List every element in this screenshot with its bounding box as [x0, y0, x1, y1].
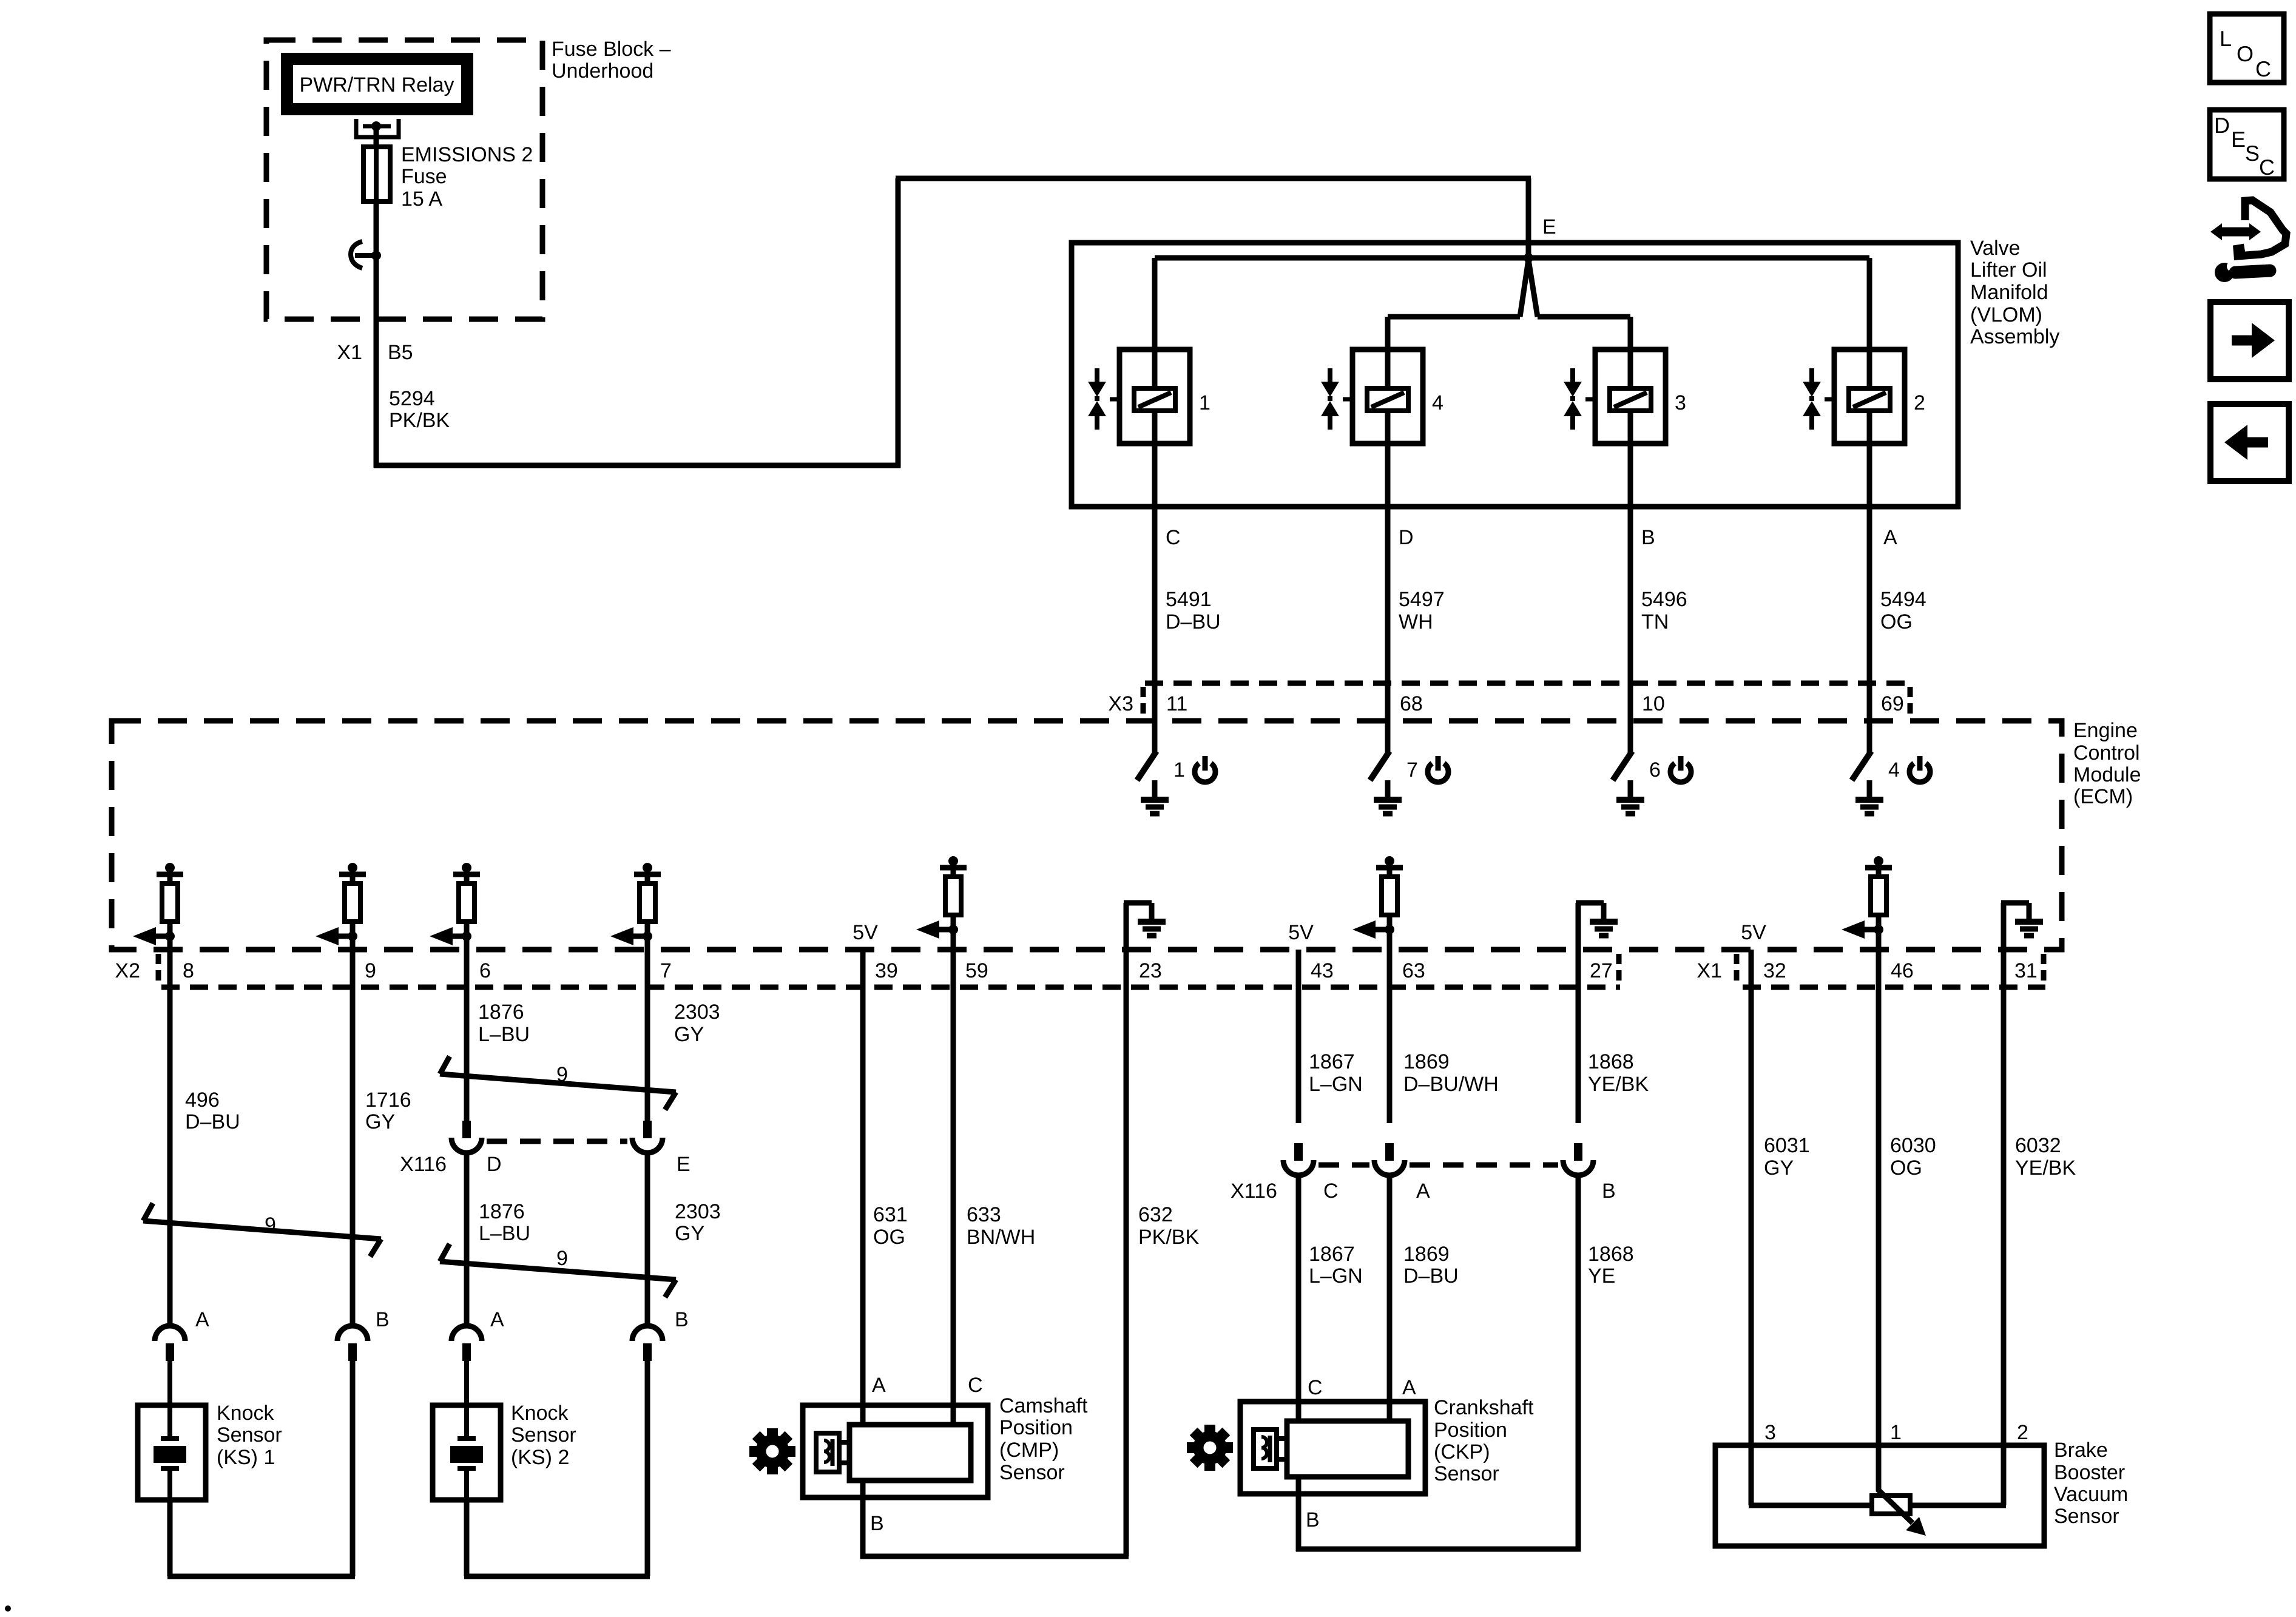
wire 2303 GY pin 7 to X116 E: [645, 950, 650, 1123]
wire V fan to solenoid bus 4-3: [1520, 260, 1538, 317]
junction dot E bus: [1524, 253, 1533, 263]
wire fuse to switch node: [374, 201, 379, 251]
svg-text:D–BU: D–BU: [1166, 610, 1221, 633]
wire KS2 return: [464, 1574, 650, 1579]
svg-text:GY: GY: [674, 1023, 704, 1046]
fuse block underhood dashed box: [266, 40, 542, 319]
label Knock Sensor (KS) 2: [511, 1402, 576, 1469]
svg-text:B5: B5: [388, 341, 413, 364]
icon DESC box: [2210, 110, 2284, 180]
svg-text:Camshaft: Camshaft: [999, 1394, 1088, 1417]
svg-text:1: 1: [1890, 1421, 1902, 1444]
X2 tick right: [1616, 954, 1622, 986]
ECM low side driver 4: [1852, 718, 1871, 800]
wire to pin: [350, 936, 356, 953]
wire label 5496 TN: [1641, 588, 1687, 633]
X3 tick left: [1141, 687, 1146, 719]
svg-text:Fuse: Fuse: [401, 165, 447, 188]
wire label 5494 OG: [1880, 588, 1926, 633]
CKP pickup element: [1254, 1430, 1289, 1468]
svg-text:59: 59: [965, 959, 988, 982]
svg-text:B: B: [675, 1308, 689, 1331]
svg-text:11: 11: [1166, 692, 1187, 715]
wire to pin: [167, 936, 173, 953]
wire down inside fuse block: [374, 255, 379, 319]
wire 632 PK/BK pin 23 down: [1124, 950, 1129, 1556]
svg-text:(KS) 2: (KS) 2: [511, 1446, 569, 1469]
svg-text:1867: 1867: [1309, 1243, 1355, 1266]
icon diagnostic connector and wrench: [2210, 200, 2286, 282]
label Engine Control Module (ECM): [2073, 719, 2141, 808]
wire label 6032 YE/BK: [2015, 1134, 2076, 1180]
svg-text:31: 31: [2014, 959, 2038, 982]
svg-text:1869: 1869: [1403, 1050, 1450, 1073]
wire to pin: [951, 930, 956, 953]
svg-text:L–GN: L–GN: [1309, 1073, 1363, 1096]
solenoid 2: [1803, 349, 1905, 444]
X3 tick right: [1908, 687, 1913, 719]
svg-text:Knock: Knock: [217, 1402, 274, 1425]
svg-text:(ECM): (ECM): [2073, 785, 2133, 808]
svg-text:Control: Control: [2073, 741, 2140, 765]
Engine Control Module dashed box: [112, 721, 2062, 950]
svg-text:1868: 1868: [1588, 1243, 1634, 1266]
svg-text:631: 631: [873, 1203, 908, 1226]
svg-text:S: S: [2245, 141, 2260, 166]
svg-text:1868: 1868: [1588, 1050, 1634, 1073]
svg-text:Sensor: Sensor: [999, 1461, 1065, 1484]
X2 tick: [156, 954, 161, 986]
svg-text:C: C: [1308, 1376, 1323, 1399]
svg-text:A: A: [872, 1374, 886, 1397]
svg-text:Assembly: Assembly: [1970, 325, 2059, 348]
svg-text:A: A: [195, 1308, 209, 1331]
svg-text:9: 9: [556, 1063, 568, 1086]
wire 2303 GY X116 E to KS2 B: [645, 1153, 650, 1326]
svg-text:Vacuum: Vacuum: [2054, 1483, 2128, 1506]
knock sensor KS2: [433, 1405, 501, 1500]
wire 5497 down to X3-68: [1385, 507, 1391, 721]
svg-text:C: C: [2255, 56, 2271, 81]
svg-text:10: 10: [1642, 692, 1665, 715]
svg-text:L–GN: L–GN: [1309, 1264, 1363, 1288]
svg-text:3: 3: [1675, 391, 1686, 414]
wire label 5491 D-BU: [1166, 588, 1221, 633]
svg-text:GY: GY: [675, 1222, 704, 1245]
ECM low side driver 7: [1370, 718, 1389, 800]
connector X116 pin E: [632, 1121, 663, 1153]
svg-text:Engine: Engine: [2073, 719, 2138, 742]
wire solenoid 1: [1152, 258, 1158, 509]
connector KS2 pin A: [451, 1326, 482, 1361]
relay contact bracket: [356, 119, 399, 137]
knock sensor KS1: [138, 1405, 206, 1500]
svg-text:Sensor: Sensor: [2054, 1505, 2119, 1528]
svg-text:Sensor: Sensor: [1434, 1462, 1499, 1485]
svg-text:(CKP): (CKP): [1434, 1440, 1490, 1463]
wire label 1876 L-BU lower: [479, 1200, 530, 1245]
wire label 5497 WH: [1399, 588, 1445, 633]
svg-text:1867: 1867: [1309, 1050, 1355, 1073]
CKP reluctor wheel: [1187, 1425, 1233, 1471]
stray period mark: [5, 1605, 11, 1612]
svg-text:39: 39: [875, 959, 898, 982]
svg-text:X116: X116: [400, 1153, 447, 1176]
svg-text:E: E: [1542, 215, 1556, 238]
svg-text:6030: 6030: [1890, 1134, 1936, 1157]
svg-text:1: 1: [1199, 391, 1210, 414]
svg-text:D–BU/WH: D–BU/WH: [1403, 1073, 1499, 1096]
svg-text:Sensor: Sensor: [511, 1423, 576, 1447]
wire 6031 GY pin 32 to BB 3: [1749, 950, 1754, 1445]
label Brake Booster Vacuum Sensor: [2054, 1439, 2128, 1528]
svg-text:5294: 5294: [389, 387, 435, 410]
X2 connector dotted line: [161, 985, 1620, 990]
svg-text:5V: 5V: [1741, 921, 1766, 944]
bus to solenoid 4: [1388, 314, 1520, 320]
wire label 1716 GY: [365, 1089, 411, 1133]
svg-text:X2: X2: [115, 959, 140, 982]
wire 6030 OG pin 46 to BB 1: [1876, 950, 1882, 1490]
solenoid 1: [1088, 349, 1190, 444]
wire 5491 down to X3-11: [1152, 507, 1158, 721]
wire label 633 BN/WH: [967, 1203, 1035, 1249]
wire KS1 bottom: [167, 1500, 173, 1576]
wire 1716 GY pin 9 to KS1 B: [350, 950, 356, 1326]
CMP reluctor wheel: [749, 1428, 795, 1474]
svg-text:633: 633: [967, 1203, 1001, 1226]
X3 connector dotted line: [1145, 681, 1912, 686]
wire solenoid 3: [1628, 317, 1633, 509]
ECM low side driver 6: [1613, 718, 1632, 800]
wire label 1869 D-BU/WH: [1403, 1050, 1499, 1096]
svg-text:TN: TN: [1641, 610, 1669, 633]
svg-text:68: 68: [1400, 692, 1423, 715]
resistor pin 63: [1352, 856, 1403, 939]
svg-text:63: 63: [1402, 959, 1425, 982]
resistor pin 46: [1842, 856, 1892, 939]
X116 dashed tie A-B: [1410, 1163, 1558, 1168]
fuse EMISSIONS 2 15A: [363, 147, 390, 201]
wire KS1... KS2 B down: [645, 1361, 650, 1576]
solenoid 4: [1321, 349, 1423, 444]
label Camshaft Position (CMP) Sensor: [999, 1394, 1088, 1484]
svg-text:2: 2: [2017, 1421, 2028, 1444]
wire 496 D-BU pin 8 to KS1 A: [167, 950, 173, 1326]
svg-text:5496: 5496: [1641, 588, 1687, 611]
svg-text:B: B: [870, 1512, 884, 1535]
wire label 6030 OG: [1890, 1134, 1936, 1180]
connector X116 pin B: [1563, 1143, 1593, 1175]
wire KS2 bottom: [464, 1500, 470, 1576]
svg-text:OG: OG: [1890, 1156, 1922, 1180]
svg-text:PK/BK: PK/BK: [1138, 1226, 1199, 1249]
X116 dashed tie C-A: [1319, 1163, 1369, 1168]
wire 1868 YE X116 B down: [1576, 1176, 1581, 1551]
svg-text:BN/WH: BN/WH: [967, 1226, 1035, 1249]
ECM ground pin 27: [1576, 903, 1604, 953]
svg-text:Position: Position: [999, 1416, 1073, 1439]
svg-text:5494: 5494: [1880, 588, 1926, 611]
wire X1-B5 down: [374, 319, 379, 468]
svg-text:C: C: [2259, 155, 2275, 180]
X1 tick: [1734, 954, 1740, 986]
svg-text:4: 4: [1432, 391, 1443, 414]
svg-text:27: 27: [1590, 959, 1613, 982]
svg-text:9: 9: [265, 1214, 276, 1237]
brake booster vacuum sensor: [1715, 1445, 2044, 1546]
svg-text:YE/BK: YE/BK: [1588, 1073, 1649, 1096]
svg-text:D: D: [2214, 113, 2230, 138]
wire label 496 D-BU: [185, 1089, 240, 1133]
svg-text:1876: 1876: [479, 1200, 525, 1223]
svg-text:A: A: [1402, 1376, 1416, 1399]
svg-text:PWR/TRN Relay: PWR/TRN Relay: [299, 73, 454, 96]
svg-text:D–BU: D–BU: [185, 1110, 240, 1133]
resistor pin 6: [430, 863, 480, 945]
resistor pin 9: [316, 863, 366, 945]
wire 6032 YE/BK pin 31 to BB 2: [2001, 950, 2007, 1445]
svg-text:Brake: Brake: [2054, 1439, 2108, 1462]
wire 1876 L-BU X116 D to KS2 A: [464, 1153, 470, 1326]
svg-text:6: 6: [479, 959, 491, 982]
svg-text:(CMP): (CMP): [999, 1439, 1059, 1462]
ECM ground pin 23: [1124, 903, 1152, 953]
svg-text:4: 4: [1888, 758, 1900, 781]
wire into KS1: [167, 1361, 172, 1405]
svg-text:O: O: [2237, 41, 2254, 66]
X1 tick right: [2041, 954, 2047, 986]
bus to solenoid 3: [1538, 314, 1630, 320]
icon forward arrow box: [2210, 302, 2289, 379]
wire 5494 down to X3-69: [1867, 507, 1872, 721]
svg-text:Manifold: Manifold: [1970, 281, 2048, 304]
svg-text:L–BU: L–BU: [478, 1023, 530, 1046]
svg-text:2303: 2303: [675, 1200, 721, 1223]
svg-text:PK/BK: PK/BK: [389, 409, 450, 432]
svg-text:2: 2: [1914, 391, 1925, 414]
svg-text:23: 23: [1139, 959, 1162, 982]
svg-text:Valve: Valve: [1970, 237, 2021, 260]
svg-text:L–BU: L–BU: [479, 1222, 530, 1245]
svg-text:9: 9: [365, 959, 376, 982]
camshaft position CMP sensor: [803, 1405, 988, 1497]
svg-text:46: 46: [1891, 959, 1914, 982]
svg-text:Booster: Booster: [2054, 1461, 2125, 1484]
label EMISSIONS 2 Fuse 15 A: [401, 143, 533, 211]
X1 connector dotted line: [1743, 985, 2045, 990]
svg-text:C: C: [1323, 1180, 1339, 1203]
X116 dashed tie D-E: [487, 1139, 627, 1144]
svg-text:A: A: [1416, 1180, 1430, 1203]
wire 1869 D-BU/WH pin 63 to X116 A: [1387, 950, 1393, 1123]
wire 1867 L-GN pin 43 to X116 C: [1296, 950, 1302, 1123]
wire down to E: [1526, 178, 1531, 258]
wire 633 BN/WH pin 59 to CMP C: [951, 950, 956, 1425]
wire CMP B return to 632: [860, 1554, 1129, 1559]
resistor pin 59: [916, 856, 967, 939]
twisted pair KS2 lower: [440, 1244, 676, 1297]
svg-text:B: B: [1306, 1508, 1320, 1531]
wire 5496 down to X3-10: [1628, 507, 1633, 721]
ECM low side driver 1: [1137, 718, 1156, 800]
svg-text:B: B: [1602, 1180, 1616, 1203]
svg-text:EMISSIONS 2: EMISSIONS 2: [401, 143, 533, 166]
junction dot at relay switch: [371, 251, 381, 260]
wire label 2303 GY lower: [675, 1200, 721, 1245]
wire 1876 L-BU pin 6 to X116 D: [464, 950, 470, 1123]
wire label 1867 L-GN lower: [1309, 1243, 1363, 1288]
svg-text:YE/BK: YE/BK: [2015, 1156, 2076, 1180]
svg-text:Module: Module: [2073, 763, 2141, 786]
label Valve Lifter Oil Manifold (VLOM) Assembly: [1970, 237, 2059, 348]
svg-text:Crankshaft: Crankshaft: [1434, 1396, 1534, 1419]
wire relay to fuse: [374, 126, 379, 147]
wire 1869 D-BU X116 A to CKP A: [1387, 1176, 1393, 1421]
svg-text:X3: X3: [1108, 692, 1133, 715]
connector KS1 pin A: [155, 1326, 185, 1361]
svg-text:GY: GY: [1764, 1156, 1794, 1180]
svg-text:1: 1: [1173, 758, 1185, 781]
wire hook to junction: [355, 253, 376, 258]
wire solenoid 2: [1867, 258, 1872, 509]
svg-text:X116: X116: [1231, 1180, 1277, 1203]
PWR/TRN Relay box: [287, 59, 467, 109]
wire to pin: [645, 936, 650, 953]
svg-text:Sensor: Sensor: [217, 1423, 282, 1447]
twisted pair KS1: [143, 1203, 381, 1257]
relay switch hook: [351, 241, 362, 268]
wire up to top bus: [896, 178, 901, 468]
svg-text:6032: 6032: [2015, 1134, 2061, 1157]
connector KS1 pin B: [337, 1326, 368, 1361]
svg-text:32: 32: [1763, 959, 1786, 982]
svg-text:D–BU: D–BU: [1403, 1264, 1459, 1288]
wire CKP B down: [1296, 1477, 1302, 1551]
svg-text:1716: 1716: [365, 1089, 411, 1112]
svg-text:Position: Position: [1434, 1419, 1507, 1442]
svg-text:X1: X1: [1697, 959, 1722, 982]
wire label 1868 YE lower: [1588, 1243, 1634, 1288]
svg-text:15 A: 15 A: [401, 187, 442, 211]
connector X116 pin D: [451, 1121, 482, 1153]
svg-text:Fuse Block –: Fuse Block –: [552, 38, 671, 61]
svg-text:Underhood: Underhood: [552, 59, 653, 83]
label Knock Sensor (KS) 1: [217, 1402, 282, 1469]
wire label 1867 L-GN upper: [1309, 1050, 1363, 1096]
svg-text:9: 9: [556, 1247, 568, 1270]
svg-text:5497: 5497: [1399, 588, 1445, 611]
svg-text:GY: GY: [365, 1110, 395, 1133]
svg-text:7: 7: [1406, 758, 1418, 781]
solenoid 3: [1564, 349, 1666, 444]
icon back arrow box: [2210, 404, 2289, 481]
wire label 2303 GY upper: [674, 1001, 720, 1046]
icon LOC box: [2210, 14, 2284, 83]
svg-text:E: E: [2231, 127, 2246, 152]
relay contact junction dot: [371, 121, 381, 131]
svg-text:632: 632: [1138, 1203, 1173, 1226]
svg-text:1876: 1876: [478, 1001, 524, 1024]
wire into KS2: [464, 1361, 469, 1405]
svg-text:43: 43: [1311, 959, 1334, 982]
wire solenoid 4: [1385, 317, 1391, 509]
VLOM assembly box: [1072, 243, 1958, 507]
svg-text:D: D: [1399, 526, 1414, 549]
wire 631 OG pin 39 to CMP A: [860, 950, 866, 1425]
wire top horizontal to VLOM E: [896, 176, 1531, 181]
resistor pin 7: [610, 863, 661, 945]
svg-text:(KS) 1: (KS) 1: [217, 1446, 275, 1469]
wire to pin: [464, 936, 470, 953]
wire 1867 L-GN X116 C to CKP C: [1296, 1176, 1302, 1421]
connector KS2 pin B: [632, 1326, 663, 1361]
inner bus E to solenoids 1 and 2: [1155, 255, 1869, 261]
label Crankshaft Position (CKP) Sensor: [1434, 1396, 1534, 1485]
svg-text:E: E: [677, 1153, 690, 1176]
wire label 631 OG: [873, 1203, 908, 1249]
svg-text:D: D: [487, 1153, 502, 1176]
wire label 632 PK/BK: [1138, 1203, 1199, 1249]
svg-text:Knock: Knock: [511, 1402, 569, 1425]
svg-text:C: C: [1166, 526, 1181, 549]
svg-text:OG: OG: [1880, 610, 1913, 633]
wire label 1869 D-BU lower: [1403, 1243, 1459, 1288]
svg-text:L: L: [2220, 26, 2232, 51]
svg-text:OG: OG: [873, 1226, 905, 1249]
svg-text:496: 496: [185, 1089, 220, 1112]
wire label 1876 L-BU upper: [478, 1001, 530, 1046]
svg-text:5V: 5V: [853, 921, 878, 944]
wire CKP B return to 1868: [1296, 1547, 1581, 1552]
svg-text:1869: 1869: [1403, 1243, 1450, 1266]
connector X116 pin A: [1374, 1143, 1405, 1175]
svg-text:WH: WH: [1399, 610, 1433, 633]
svg-text:2303: 2303: [674, 1001, 720, 1024]
wire 1868 YE/BK pin 27 to X116 B: [1576, 950, 1581, 1123]
svg-text:6031: 6031: [1764, 1134, 1810, 1157]
wire to pin: [1876, 930, 1882, 953]
connector X116 pin C: [1283, 1143, 1314, 1175]
wire label 1868 YE/BK: [1588, 1050, 1649, 1096]
ECM ground pin 31: [2001, 903, 2029, 953]
twisted pair KS2 upper: [440, 1056, 676, 1110]
svg-text:X1: X1: [337, 341, 362, 364]
svg-text:7: 7: [660, 959, 672, 982]
crankshaft position CKP sensor: [1240, 1402, 1425, 1494]
svg-text:5V: 5V: [1288, 921, 1314, 944]
svg-text:A: A: [490, 1308, 504, 1331]
svg-text:5491: 5491: [1166, 588, 1212, 611]
svg-text:B: B: [376, 1308, 390, 1331]
svg-text:8: 8: [183, 959, 194, 982]
wire horizontal 5294: [374, 463, 900, 468]
wire label 6031 GY: [1764, 1134, 1810, 1180]
svg-text:(VLOM): (VLOM): [1970, 303, 2042, 326]
svg-text:Lifter Oil: Lifter Oil: [1970, 258, 2047, 282]
svg-text:3: 3: [1764, 1421, 1776, 1444]
wire KS1 return: [167, 1574, 355, 1579]
svg-text:A: A: [1883, 526, 1897, 549]
resistor pin 8: [133, 863, 183, 945]
CMP pickup element: [816, 1433, 852, 1472]
wire to pin: [1387, 930, 1393, 953]
svg-text:YE: YE: [1588, 1264, 1615, 1288]
wire CMP B down: [860, 1480, 866, 1559]
svg-text:B: B: [1641, 526, 1655, 549]
svg-text:6: 6: [1649, 758, 1661, 781]
wire label 5294 PK/BK: [389, 387, 450, 432]
